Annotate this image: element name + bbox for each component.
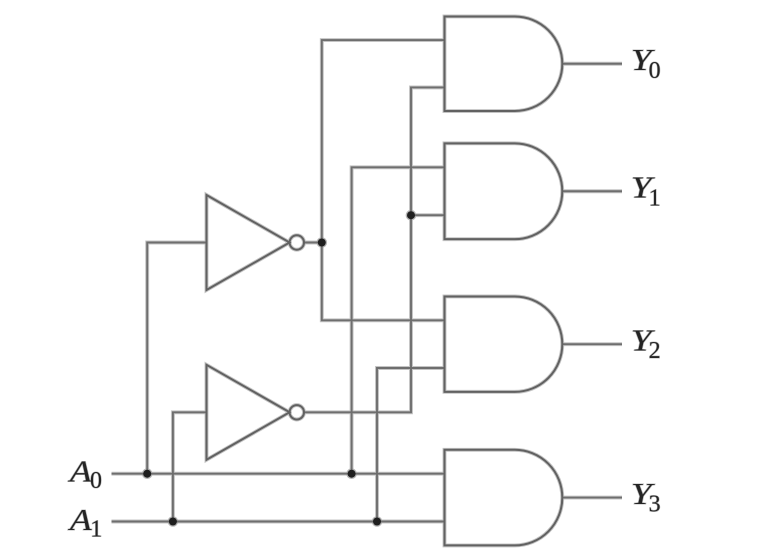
svg-text:0: 0 (90, 468, 102, 494)
svg-text:3: 3 (649, 492, 661, 518)
svg-text:1: 1 (649, 185, 661, 211)
svg-text:1: 1 (90, 516, 102, 542)
svg-text:2: 2 (649, 338, 661, 364)
svg-text:0: 0 (649, 58, 661, 84)
svg-text:A: A (68, 454, 93, 488)
svg-text:A: A (68, 503, 93, 537)
